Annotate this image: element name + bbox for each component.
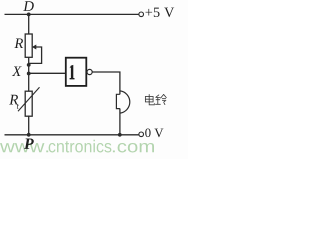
potentiometer arrow head xyxy=(32,45,36,50)
NOT gate label 1 xyxy=(70,65,75,80)
label +5 V xyxy=(146,8,175,18)
bell plate xyxy=(116,94,120,108)
label 0 V xyxy=(145,128,163,137)
label X xyxy=(12,67,22,77)
wire bottom rail P to 0V xyxy=(5,134,139,136)
wire from node D down to resistor R xyxy=(28,14,30,34)
terminal 0V circle xyxy=(139,132,144,137)
resistor R body xyxy=(25,34,32,57)
wire bell bottom to rail xyxy=(119,109,121,135)
label P xyxy=(24,139,34,149)
label R xyxy=(14,39,23,49)
wire gate output to bell xyxy=(92,72,120,94)
wire top rail D to +5V xyxy=(5,13,139,15)
NOT gate output bubble xyxy=(87,69,92,74)
NOT gate U1 box xyxy=(66,58,87,86)
bell arc xyxy=(120,91,130,113)
wire resistor bottom to thermistor top xyxy=(28,57,30,91)
label 电铃 (electric bell) xyxy=(0,0,1,1)
wire node X to gate input xyxy=(29,72,66,74)
node X junction dot xyxy=(27,72,31,76)
bell junction dot xyxy=(118,133,122,137)
node D junction dot xyxy=(27,13,31,17)
wiper junction dot xyxy=(27,63,31,67)
thermistor Rt diagonal stroke xyxy=(18,87,40,111)
thermistor Rt body xyxy=(25,91,32,116)
node P junction dot xyxy=(27,133,31,137)
potentiometer wiper wire xyxy=(29,47,42,63)
terminal +5V circle xyxy=(139,12,144,17)
label D xyxy=(23,1,34,11)
watermark www.cntronics.com xyxy=(0,143,48,152)
wire thermistor bottom to rail xyxy=(28,116,30,136)
label Rt xyxy=(9,95,18,105)
